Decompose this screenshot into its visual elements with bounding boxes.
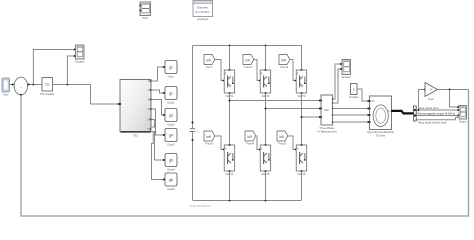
transistor IGBT2 (IGBT/diode upper) <box>260 69 271 98</box>
from tag From3 <box>204 131 215 146</box>
svg-text:powergui: powergui <box>197 17 208 21</box>
svg-text:Constant: Constant <box>349 96 359 99</box>
goto tag P2 <box>163 87 177 105</box>
transistor IGBT3 (IGBT/diode upper) <box>296 69 307 98</box>
svg-text:Scope1: Scope1 <box>75 60 85 64</box>
wire: DC bottom bus <box>193 200 302 202</box>
scope SC3 (Scope, machine signals) <box>459 106 467 124</box>
scope SC0 (floating Scope at top) <box>139 2 150 20</box>
label: Electromagnetic torque Te <box>418 112 456 116</box>
breaker block TSC breaker <box>40 78 55 97</box>
svg-text:Gain: Gain <box>428 97 434 101</box>
svg-text:From1: From1 <box>244 65 252 69</box>
wire: rotor angle signal <box>417 118 459 120</box>
svg-text:[g1]: [g1] <box>206 58 211 62</box>
wire: Vs to AC source <box>10 84 15 86</box>
wire: constant to machine Tm input <box>357 89 369 102</box>
wire: AC source output to TSC breaker, junction node A <box>28 84 43 86</box>
svg-text:Goto3: Goto3 <box>167 142 175 146</box>
wire: gain branch down to scope top input <box>450 90 460 109</box>
svg-text:Rotor speed (wm): Rotor speed (wm) <box>418 106 439 110</box>
goto tag P3 <box>163 109 177 127</box>
svg-text:SI Units: SI Units <box>376 134 386 138</box>
label: series branch label under bottom bus <box>190 205 211 208</box>
wire: torque signal to scope <box>417 115 460 117</box>
wire: DC left rail lower <box>192 132 194 200</box>
svg-text:Scope: Scope <box>459 120 467 124</box>
wire: Iabc measurement up to Scope2 input 2 <box>333 68 343 103</box>
wire: From3 to gate of IGBT4 <box>215 136 225 150</box>
svg-text:TSC: TSC <box>44 83 50 87</box>
svg-text:From4: From4 <box>246 142 254 146</box>
svg-text:Asynchronous Machine: Asynchronous Machine <box>367 130 395 134</box>
wire: pulse 2 to goto tag P2 <box>151 90 164 93</box>
transistor IGBT4 (IGBT/diode lower) <box>224 144 235 176</box>
goto tag P1 <box>163 61 177 79</box>
svg-text:[g4]: [g4] <box>206 134 211 138</box>
subsystem U1 TSC control (gradient masked block, 6 pulse outputs) <box>120 80 152 138</box>
wire: pulse 5 to goto tag P5 <box>151 120 164 161</box>
wire: gain output to right rail and down to scope input <box>438 89 469 91</box>
svg-text:From3: From3 <box>205 142 213 146</box>
wire: From2 to gate of IGBT3 <box>290 60 297 82</box>
wire: phase B from leg 2 midpoint to V-I measurement <box>265 108 321 110</box>
goto tag P5 <box>163 154 177 172</box>
wire: phase C from leg 3 midpoint to V-I measurement <box>301 116 321 118</box>
svg-text:Tm: Tm <box>371 100 374 103</box>
machine M1 Asynchronous Machine <box>367 96 395 138</box>
measurement block U2 Three-Phase V-I Measurement <box>317 95 337 134</box>
svg-text:Scope2: Scope2 <box>342 75 352 79</box>
label: Rotor speed (wm) <box>418 106 439 110</box>
from tag From <box>204 55 215 70</box>
svg-text:Goto2: Goto2 <box>167 122 175 126</box>
svg-text:V-I Measurement: V-I Measurement <box>317 130 337 134</box>
svg-text:Ts = 5e-05 s.: Ts = 5e-05 s. <box>195 10 210 14</box>
wire: pulse 3 to goto tag P3 <box>151 100 164 116</box>
svg-text:g3: g3 <box>169 114 173 118</box>
AC source V1 (controlled voltage source ellipse) <box>14 77 27 95</box>
transistor IGBT6 (IGBT/diode lower) <box>296 144 307 176</box>
wire: From4 to gate of IGBT5 <box>256 136 261 150</box>
svg-text:Goto1: Goto1 <box>167 100 175 104</box>
svg-text:Electromagnetic torque Te (N*m: Electromagnetic torque Te (N*m) <box>418 112 456 116</box>
svg-text:[g6]: [g6] <box>279 134 284 138</box>
from tag From2 <box>279 55 290 70</box>
wire: machine measurement bus (thick) to bus selector <box>392 111 414 114</box>
svg-text:g5: g5 <box>169 159 173 163</box>
goto tag P4 <box>163 129 177 147</box>
wire: leg midpoint vertical <box>301 94 303 144</box>
wire: phase C to machine <box>333 121 370 123</box>
constant block K1 (torque Tm) <box>349 84 359 100</box>
svg-text:From5: From5 <box>278 142 286 146</box>
svg-text:Vsrc: Vsrc <box>3 92 9 96</box>
capacitor C1 (DC link) <box>190 129 200 134</box>
svg-text:C: C <box>198 129 200 133</box>
wire: pulse 4 to goto tag P4 <box>151 109 164 135</box>
from tag From5 <box>277 131 288 146</box>
wire: pulse 1 to goto tag P1 <box>151 67 164 81</box>
wire: leg midpoint vertical <box>229 94 231 144</box>
svg-text:Time: Time <box>142 16 148 20</box>
transistor IGBT1 (IGBT/diode upper) <box>224 69 235 98</box>
wire: From to gate of IGBT1 <box>215 60 225 82</box>
wire: rotor speed signal to scope <box>417 109 460 111</box>
wire: Vabc measurement up to Scope2 input 1 <box>333 63 343 99</box>
svg-text:[g5]: [g5] <box>247 134 252 138</box>
svg-text:TSC breaker: TSC breaker <box>40 92 55 96</box>
wire: DC left rail upper <box>192 46 194 129</box>
scope SC1 (Scope1, two inputs) <box>75 45 85 64</box>
wire: DC top bus <box>193 45 302 47</box>
wire: From5 to gate of IGBT6 <box>288 136 297 150</box>
svg-text:TSC: TSC <box>133 133 139 137</box>
wire: phase A from leg 1 midpoint to V-I measurement <box>229 100 321 102</box>
wire: IGBT6 emitter to bottom bus <box>301 172 303 200</box>
wire: From1 to gate of IGBT2 <box>254 60 261 82</box>
goto tag P6 <box>163 173 177 191</box>
svg-text:[g2]: [g2] <box>245 58 250 62</box>
wire: rotor speed branch up to gain input <box>418 89 426 112</box>
wire: leg drop from top bus to IGBT3 <box>301 46 303 69</box>
svg-text:-K-: -K- <box>430 88 434 92</box>
powergui block <box>193 1 213 21</box>
wire: ground return rail from AC source bottom along page bottom and up right side to gain output <box>21 90 469 217</box>
label: Rotor angle thetam <box>418 121 446 125</box>
svg-text:Vabc: Vabc <box>324 109 330 112</box>
svg-text:g6: g6 <box>169 178 173 182</box>
svg-text:Rotor angle thetam (rad): Rotor angle thetam (rad) <box>418 121 446 125</box>
wire: leg midpoint vertical <box>265 94 267 144</box>
gain G1 (triangle) <box>425 83 438 102</box>
wire: node A up to Scope1 input 1 <box>33 49 75 85</box>
svg-text:[g3]: [g3] <box>281 58 286 62</box>
wire: phase B to machine <box>333 114 370 116</box>
svg-text:Discrete,: Discrete, <box>197 6 209 10</box>
svg-text:g1: g1 <box>169 66 173 70</box>
wire: leg drop from top bus to IGBT1 <box>229 46 231 69</box>
wire: IGBT4 emitter to bottom bus <box>229 172 231 200</box>
svg-text:Series RLC Branch: Series RLC Branch <box>190 205 211 208</box>
wire: IGBT5 emitter to bottom bus <box>265 172 267 200</box>
source block Vs (control input to AC source) <box>2 78 10 96</box>
svg-text:Goto4: Goto4 <box>167 167 175 171</box>
wire: node B up to Scope1 input 2 <box>67 55 75 85</box>
wire: leg drop from top bus to IGBT2 <box>265 46 267 69</box>
svg-text:g2: g2 <box>169 92 173 96</box>
svg-text:m: m <box>388 110 390 113</box>
from tag From4 <box>245 131 256 146</box>
block R1 (small element on pulse 6 wire) <box>151 127 156 132</box>
bus selector B1 <box>414 106 417 121</box>
svg-text:From2: From2 <box>280 65 288 69</box>
svg-text:From: From <box>206 65 213 69</box>
from tag From1 <box>243 55 254 70</box>
svg-text:Goto5: Goto5 <box>167 187 175 191</box>
svg-text:g4: g4 <box>169 134 173 138</box>
scope SC2 (Scope2, two inputs) <box>342 60 352 80</box>
wire: TSC breaker to subsystem input, junction node B <box>53 84 120 106</box>
svg-text:Three-Phase: Three-Phase <box>319 126 335 130</box>
wire: phase A to machine <box>333 108 370 110</box>
svg-text:Goto: Goto <box>168 74 174 78</box>
wire: pulse 6 to goto tag P6 <box>152 132 164 180</box>
transistor IGBT5 (IGBT/diode lower) <box>260 144 271 176</box>
